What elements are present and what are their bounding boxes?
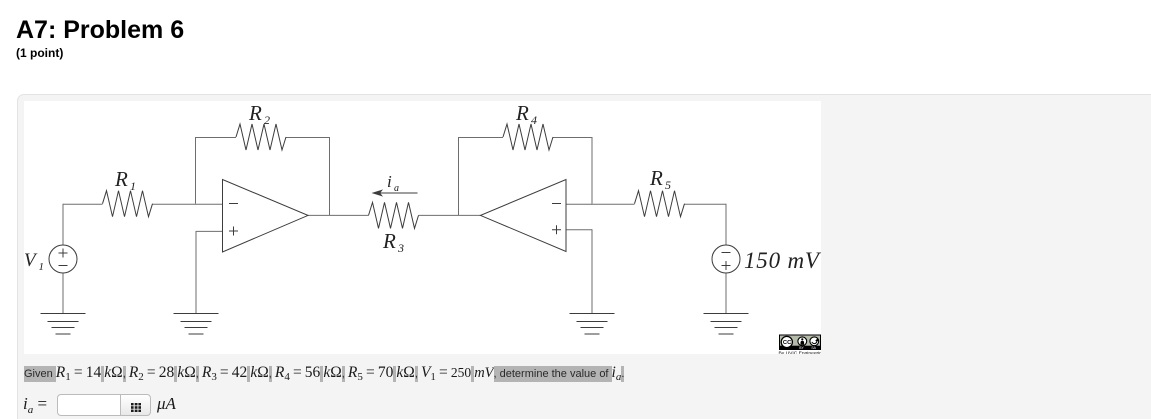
wire R4 top left <box>458 137 503 139</box>
wire R2 left vertical <box>195 137 197 204</box>
source V1 minus sign <box>59 265 68 267</box>
ground under V2 <box>704 314 749 335</box>
answer input box <box>57 394 120 416</box>
source V1 circle <box>49 245 77 273</box>
source V1 plus sign <box>59 249 68 258</box>
ground under V1 <box>41 314 86 335</box>
svg-text:R: R <box>248 101 262 125</box>
keypad button <box>120 394 151 416</box>
svg-text:BY: BY <box>799 346 804 350</box>
svg-text:R: R <box>382 229 396 253</box>
svg-text:1: 1 <box>39 261 45 273</box>
wire R4 left vertical <box>458 137 460 215</box>
op-amp U1 minus sign <box>229 203 238 205</box>
svg-text:SA: SA <box>811 346 816 350</box>
current arrow head <box>372 189 384 196</box>
answer row <box>25 394 425 419</box>
wire V1 top to node <box>62 204 64 245</box>
wire R5 to source node <box>685 203 727 205</box>
op-amp U2 minus sign <box>552 203 561 205</box>
svg-text:R: R <box>515 101 529 125</box>
resistor R5 <box>635 191 685 217</box>
wire U2 plus input <box>566 229 592 231</box>
svg-text:R: R <box>114 167 128 191</box>
wire source V2 to ground <box>725 273 727 314</box>
op-amp U1 <box>223 180 309 253</box>
svg-text:i: i <box>387 172 392 191</box>
wire U2 plus to ground <box>591 229 593 313</box>
source V2 minus sign <box>722 252 731 254</box>
wire node down to source V2 <box>725 204 727 245</box>
svg-text:1: 1 <box>130 179 136 193</box>
wire R3 to U2 output <box>419 214 481 216</box>
svg-text:3: 3 <box>397 241 404 255</box>
wire R2 top right <box>286 137 330 139</box>
wire U1 plus to ground <box>195 231 197 314</box>
wire node to R5 <box>592 203 635 205</box>
wire U2 minus input <box>566 203 592 205</box>
resistor R4 <box>503 124 553 150</box>
op-amp U2 <box>481 180 567 252</box>
wire R4 right vertical <box>591 137 593 204</box>
svg-text:V: V <box>24 250 38 271</box>
op-amp U2 plus sign <box>552 225 561 234</box>
svg-text:a: a <box>394 183 399 194</box>
svg-text:CC: CC <box>783 340 792 346</box>
svg-text:By UVIC Engineering: By UVIC Engineering <box>779 350 822 354</box>
op-amp U1 plus sign <box>229 227 238 236</box>
wire U1 output to R3 <box>308 214 369 216</box>
resistor R1 <box>103 191 153 217</box>
svg-text:2: 2 <box>264 113 270 127</box>
wire R4 top right <box>553 137 592 139</box>
wire V1 to ground <box>62 273 64 314</box>
wire node to R1 <box>63 203 103 205</box>
resistor R2 <box>236 124 286 150</box>
CC license badge <box>780 335 821 350</box>
svg-text:R: R <box>649 166 663 190</box>
source V2 circle (150 mV) <box>712 245 740 273</box>
svg-text:150 mV: 150 mV <box>744 248 821 273</box>
current arrow i_a <box>379 192 418 194</box>
svg-text:5: 5 <box>665 178 671 192</box>
wire R2 top left <box>195 137 236 139</box>
svg-text:4: 4 <box>531 113 537 127</box>
wire U1 plus input <box>196 230 223 232</box>
ground under U2 plus <box>570 314 615 335</box>
given statement row <box>24 364 1124 382</box>
source V2 plus sign <box>722 261 731 270</box>
resistor R3 <box>369 202 419 228</box>
wire R1 to op-amp U1 minus input <box>153 203 223 205</box>
ground under U1 plus <box>174 314 219 335</box>
wire R2 right vertical <box>329 137 331 215</box>
